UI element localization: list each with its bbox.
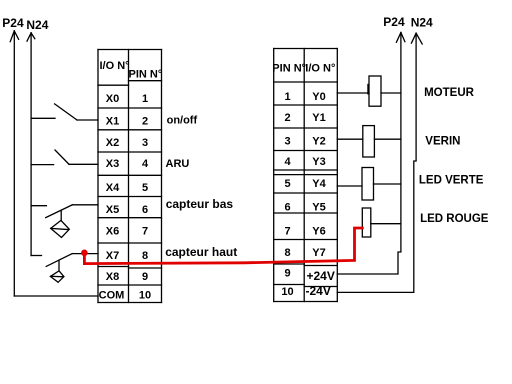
svg-text:8: 8: [284, 247, 290, 259]
svg-text:Y1: Y1: [312, 112, 325, 124]
svg-text:2: 2: [142, 116, 148, 128]
svg-text:Y0: Y0: [312, 91, 325, 103]
svg-text:X7: X7: [106, 250, 119, 262]
svg-text:P24: P24: [2, 16, 24, 30]
svg-text:VERIN: VERIN: [425, 136, 460, 148]
svg-text:I/O N°: I/O N°: [100, 60, 130, 72]
svg-text:2: 2: [284, 112, 290, 124]
svg-text:10: 10: [281, 286, 293, 298]
svg-text:X5: X5: [106, 204, 119, 216]
svg-text:Y7: Y7: [312, 247, 325, 259]
svg-text:6: 6: [142, 204, 148, 216]
svg-text:X3: X3: [106, 158, 119, 170]
svg-text:X8: X8: [106, 271, 119, 283]
svg-text:P24: P24: [383, 15, 405, 29]
svg-text:X4: X4: [106, 182, 120, 194]
svg-text:Y5: Y5: [312, 202, 325, 214]
svg-text:-24V: -24V: [306, 284, 331, 298]
svg-text:COM: COM: [99, 290, 125, 302]
svg-text:9: 9: [142, 271, 148, 283]
svg-text:6: 6: [284, 202, 290, 214]
svg-text:I/O N°: I/O N°: [305, 63, 335, 75]
svg-text:X1: X1: [106, 116, 119, 128]
svg-text:9: 9: [284, 268, 290, 280]
svg-text:5: 5: [284, 178, 290, 190]
svg-text:ARU: ARU: [166, 158, 190, 170]
svg-text:X0: X0: [106, 93, 119, 105]
svg-text:Y3: Y3: [312, 156, 325, 168]
svg-text:N24: N24: [26, 18, 48, 32]
svg-text:+24V: +24V: [307, 269, 335, 283]
svg-text:Y2: Y2: [312, 136, 325, 148]
svg-text:MOTEUR: MOTEUR: [424, 87, 475, 99]
svg-text:capteur haut: capteur haut: [165, 245, 237, 259]
svg-text:PIN N°: PIN N°: [272, 63, 306, 75]
svg-text:on/off: on/off: [167, 115, 198, 127]
svg-text:LED VERTE: LED VERTE: [419, 175, 484, 187]
svg-text:8: 8: [142, 250, 148, 262]
svg-text:5: 5: [142, 182, 148, 194]
svg-text:7: 7: [284, 226, 290, 238]
svg-text:4: 4: [284, 156, 291, 168]
svg-text:4: 4: [142, 158, 149, 170]
svg-text:3: 3: [142, 137, 148, 149]
svg-text:X2: X2: [106, 137, 119, 149]
svg-text:LED ROUGE: LED ROUGE: [420, 213, 489, 225]
svg-text:7: 7: [142, 226, 148, 238]
svg-text:3: 3: [284, 136, 290, 148]
svg-text:10: 10: [139, 290, 151, 302]
svg-text:1: 1: [142, 93, 148, 105]
svg-text:Y6: Y6: [312, 226, 325, 238]
svg-text:X6: X6: [106, 226, 119, 238]
svg-text:capteur bas: capteur bas: [166, 197, 234, 211]
svg-text:N24: N24: [411, 15, 433, 29]
svg-text:PIN N°: PIN N°: [129, 69, 163, 81]
svg-text:1: 1: [284, 91, 290, 103]
svg-text:Y4: Y4: [312, 178, 326, 190]
